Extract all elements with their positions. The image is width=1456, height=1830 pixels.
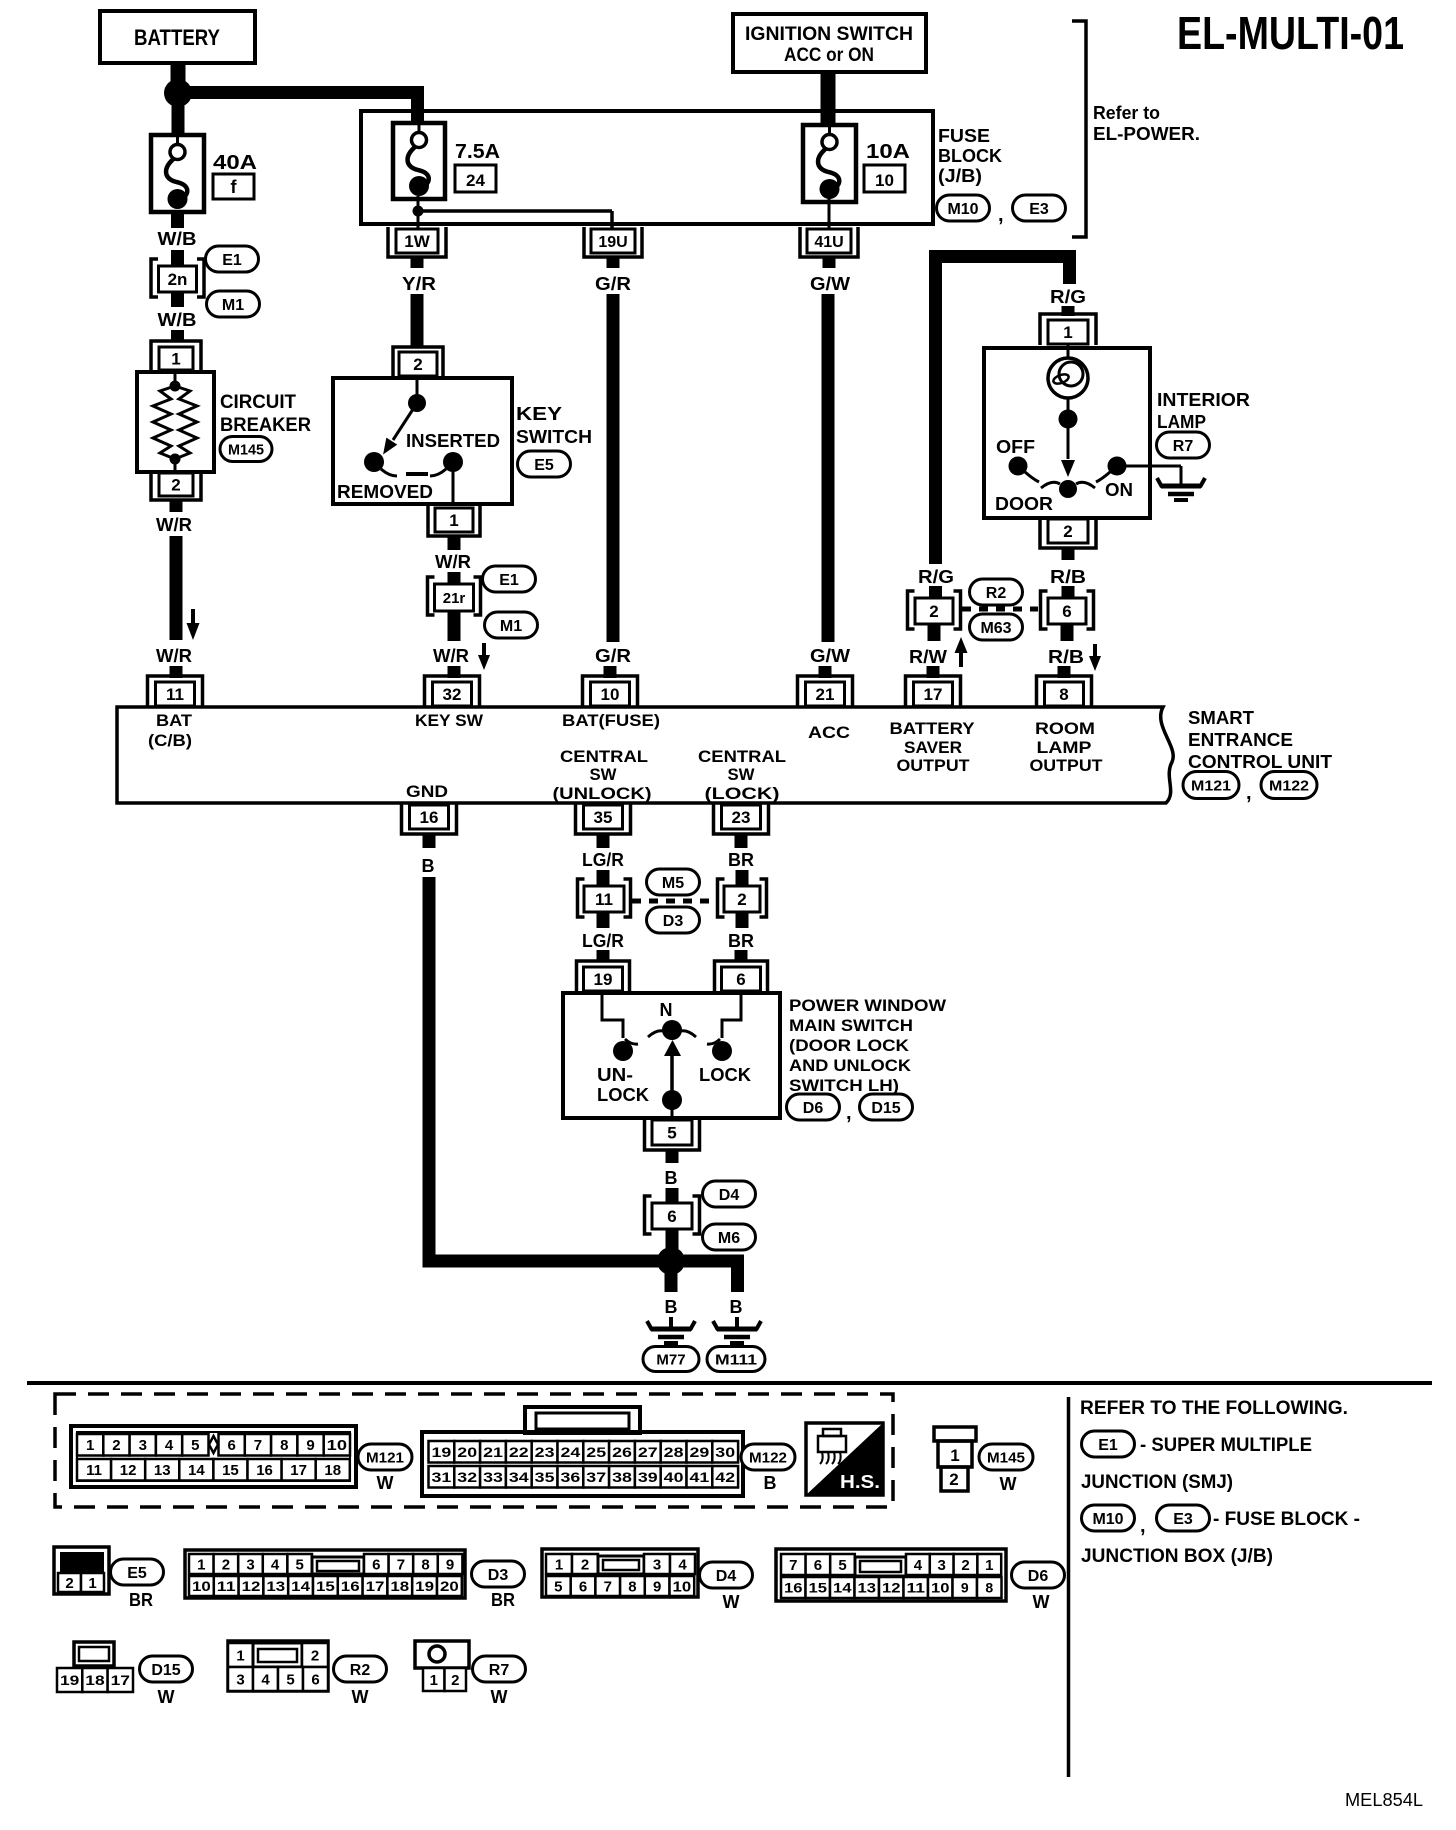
svg-text:(C/B): (C/B)	[148, 731, 192, 750]
note fuse block	[1213, 1509, 1360, 1530]
pin 19 power window main switch	[577, 961, 630, 992]
connector 6 (R2/M63)	[1041, 591, 1094, 629]
connector E1 oval (key switch)	[483, 566, 536, 592]
wire B connector 6 to ground junction	[666, 1228, 679, 1249]
svg-text:5: 5	[286, 1671, 294, 1688]
connector M1 oval (key switch)	[485, 612, 538, 638]
svg-text:W: W	[1000, 1474, 1017, 1494]
svg-text:R/B: R/B	[1048, 647, 1084, 667]
svg-text:8: 8	[421, 1556, 429, 1573]
connector M121 pinout	[71, 1426, 356, 1487]
svg-text:5: 5	[296, 1556, 304, 1573]
svg-text:38: 38	[612, 1469, 632, 1485]
note junction SMJ	[1081, 1472, 1233, 1493]
svg-text:W/B: W/B	[158, 310, 197, 330]
wire G/R 19U to control unit pin 10	[595, 257, 631, 678]
connector E1 oval (note)	[1082, 1431, 1135, 1457]
svg-text:3: 3	[139, 1437, 147, 1454]
connector D15 oval (pinout)	[140, 1656, 193, 1707]
svg-text:6: 6	[372, 1556, 380, 1573]
svg-text:8: 8	[985, 1580, 993, 1596]
wire inside fuse block 7.5A to 1W and 19U	[413, 196, 613, 232]
arrow up (battery saver)	[955, 637, 968, 667]
svg-text:SWITCH: SWITCH	[516, 427, 592, 447]
svg-text:19: 19	[415, 1578, 434, 1594]
pin 11 BAT (C/B)	[148, 676, 203, 707]
svg-text:2: 2	[737, 890, 746, 909]
svg-text:24: 24	[561, 1444, 581, 1460]
svg-text:M145: M145	[987, 1449, 1025, 1466]
wire ignition switch to fuse 10A	[821, 72, 836, 126]
svg-text:7: 7	[397, 1556, 405, 1573]
svg-text:LOCK: LOCK	[597, 1085, 649, 1105]
connector D4 oval	[703, 1181, 756, 1207]
connector M121 oval (pinout)	[358, 1444, 412, 1493]
svg-text:1: 1	[430, 1672, 438, 1689]
svg-text:W/R: W/R	[435, 552, 471, 572]
svg-text:9: 9	[306, 1437, 314, 1454]
wire W/B connector 2n to circuit breaker	[158, 291, 197, 342]
svg-text:12: 12	[120, 1462, 137, 1479]
svg-text:3: 3	[236, 1671, 244, 1688]
svg-text:5: 5	[667, 1124, 676, 1143]
connector E5 oval	[518, 451, 571, 477]
svg-text:INTERIOR: INTERIOR	[1157, 390, 1250, 410]
svg-text:G/R: G/R	[595, 274, 631, 294]
comma	[1140, 1515, 1146, 1537]
svg-text:9: 9	[653, 1578, 661, 1595]
wire G/W 41U to control unit pin 21	[810, 257, 850, 678]
control unit pin labels top	[148, 711, 1103, 775]
wire B junction down to left ground	[665, 1272, 678, 1328]
pin 23 CENTRAL SW LOCK	[714, 803, 769, 834]
svg-text:W/R: W/R	[156, 646, 192, 666]
svg-text:M77: M77	[656, 1351, 685, 1368]
svg-text:,: ,	[998, 204, 1004, 226]
svg-text:OUTPUT: OUTPUT	[1030, 756, 1104, 775]
svg-text:(LOCK): (LOCK)	[705, 784, 780, 803]
svg-text:17: 17	[111, 1672, 131, 1688]
svg-text:17: 17	[366, 1578, 385, 1594]
svg-text:REMOVED: REMOVED	[337, 482, 433, 502]
svg-text:R2: R2	[986, 585, 1007, 602]
svg-text:ACC or ON: ACC or ON	[784, 45, 874, 66]
connector D4 pinout	[542, 1549, 698, 1597]
pin 1 key switch	[428, 506, 480, 536]
H.S. mark	[806, 1423, 883, 1495]
svg-text:BAT(FUSE): BAT(FUSE)	[562, 711, 660, 730]
svg-text:R7: R7	[489, 1662, 510, 1679]
connector D15 oval	[860, 1094, 913, 1120]
svg-text:13: 13	[266, 1578, 285, 1594]
pin 2 key switch	[393, 347, 443, 377]
wire Y/R 1W to key switch	[402, 257, 436, 348]
svg-text:6: 6	[579, 1578, 587, 1595]
svg-text:BREAKER: BREAKER	[220, 415, 311, 436]
svg-text:ROOM: ROOM	[1035, 719, 1095, 738]
vertical divider	[1067, 1397, 1071, 1777]
svg-text:W: W	[377, 1473, 394, 1493]
connector M10 oval	[937, 195, 990, 221]
svg-text:17: 17	[924, 685, 943, 704]
wire inside fuse block 10A to 41U	[828, 196, 831, 232]
svg-text:M121: M121	[366, 1449, 404, 1466]
connector R7 pinout	[415, 1641, 469, 1691]
svg-text:2n: 2n	[168, 270, 188, 289]
svg-text:SAVER: SAVER	[904, 738, 962, 757]
svg-text:10: 10	[192, 1578, 211, 1594]
svg-text:8: 8	[628, 1578, 636, 1595]
svg-text:CONTROL UNIT: CONTROL UNIT	[1188, 752, 1332, 772]
svg-text:20: 20	[440, 1578, 459, 1594]
svg-text:5: 5	[554, 1578, 562, 1595]
svg-text:M1: M1	[222, 297, 244, 314]
svg-text:1: 1	[197, 1556, 205, 1573]
svg-text:19: 19	[432, 1444, 452, 1460]
ground M111	[707, 1321, 765, 1372]
connector E3 oval	[1013, 195, 1066, 221]
power window main switch label	[789, 996, 947, 1095]
svg-text:18: 18	[324, 1462, 341, 1479]
svg-text:R7: R7	[1173, 438, 1194, 455]
svg-text:7: 7	[254, 1437, 262, 1454]
svg-text:32: 32	[443, 685, 462, 704]
svg-text:D6: D6	[803, 1100, 824, 1117]
pin 1 interior lamp	[1040, 314, 1096, 345]
connector M121 oval	[1183, 772, 1239, 799]
svg-text:40A: 40A	[213, 152, 257, 174]
svg-text:8: 8	[280, 1437, 288, 1454]
svg-text:4: 4	[271, 1556, 280, 1573]
svg-text:B: B	[665, 1168, 678, 1188]
svg-text:27: 27	[638, 1444, 658, 1460]
svg-text:G/W: G/W	[810, 646, 850, 666]
fuse 7.5A 24	[393, 123, 500, 199]
svg-text:1: 1	[950, 1446, 959, 1465]
svg-text:POWER WINDOW: POWER WINDOW	[789, 996, 947, 1015]
svg-text:29: 29	[690, 1444, 710, 1460]
svg-text:SMART: SMART	[1188, 708, 1254, 728]
svg-text:IGNITION SWITCH: IGNITION SWITCH	[745, 24, 913, 45]
svg-text:EL-MULTI-01: EL-MULTI-01	[1177, 7, 1404, 59]
svg-text:D15: D15	[871, 1100, 900, 1117]
separator line	[27, 1381, 1432, 1385]
svg-text:24: 24	[466, 171, 485, 190]
svg-text:10: 10	[931, 1580, 950, 1596]
comma	[1246, 782, 1252, 804]
svg-text:R/B: R/B	[1050, 567, 1086, 587]
svg-text:- SUPER MULTIPLE: - SUPER MULTIPLE	[1140, 1435, 1312, 1456]
svg-text:W: W	[491, 1687, 508, 1707]
svg-text:7.5A: 7.5A	[455, 141, 500, 163]
wire B label right ground	[730, 1297, 743, 1328]
wire W/B fuse to connector 2n	[158, 212, 197, 267]
note junction box	[1081, 1546, 1273, 1567]
svg-text:21: 21	[816, 685, 835, 704]
svg-text:M122: M122	[1269, 777, 1309, 794]
svg-text:SWITCH LH): SWITCH LH)	[789, 1076, 899, 1095]
svg-text:16: 16	[420, 808, 439, 827]
connector M122 oval	[1261, 772, 1317, 799]
svg-text:D3: D3	[488, 1567, 509, 1584]
connector D6 pinout	[776, 1549, 1006, 1601]
svg-text:7: 7	[789, 1557, 797, 1574]
fuse 10A 10	[803, 125, 910, 202]
svg-text:26: 26	[612, 1444, 632, 1460]
svg-text:E3: E3	[1173, 1511, 1193, 1528]
svg-text:(J/B): (J/B)	[938, 166, 982, 186]
svg-text:B: B	[665, 1297, 678, 1317]
connector 19U fuse block output	[584, 227, 642, 257]
svg-text:2: 2	[311, 1647, 319, 1664]
svg-text:,: ,	[1140, 1515, 1146, 1537]
svg-text:R2: R2	[350, 1662, 371, 1679]
svg-text:4: 4	[165, 1437, 174, 1454]
svg-text:W: W	[352, 1687, 369, 1707]
connector D4 oval (pinout)	[700, 1562, 753, 1612]
connector E3 oval (note)	[1157, 1505, 1210, 1531]
svg-text:W/R: W/R	[156, 515, 192, 535]
svg-text:E5: E5	[127, 1565, 147, 1582]
svg-text:LOCK: LOCK	[699, 1065, 751, 1085]
svg-text:BR: BR	[728, 931, 754, 951]
connector M6 oval	[703, 1224, 756, 1250]
svg-text:ENTRANCE: ENTRANCE	[1188, 730, 1293, 750]
svg-text:9: 9	[961, 1580, 969, 1596]
svg-text:5: 5	[191, 1437, 199, 1454]
svg-text:SW: SW	[728, 765, 756, 784]
svg-text:31: 31	[432, 1469, 452, 1485]
svg-text:6: 6	[814, 1557, 822, 1574]
svg-text:D6: D6	[1028, 1568, 1049, 1585]
svg-text:15: 15	[316, 1578, 335, 1594]
svg-text:Y/R: Y/R	[402, 274, 436, 294]
svg-text:JUNCTION (SMJ): JUNCTION (SMJ)	[1081, 1472, 1233, 1493]
svg-text:2: 2	[413, 355, 422, 374]
battery	[100, 11, 255, 63]
pin 35 CENTRAL SW UNLOCK	[576, 803, 631, 834]
svg-text:M63: M63	[980, 620, 1011, 637]
svg-text:M10: M10	[1092, 1511, 1123, 1528]
svg-text:37: 37	[586, 1469, 606, 1485]
svg-text:23: 23	[535, 1444, 555, 1460]
svg-text:M145: M145	[228, 441, 264, 458]
wire R/G trunk from fuse block	[918, 250, 1070, 599]
interior lamp R7	[984, 345, 1181, 518]
svg-text:OFF: OFF	[996, 437, 1035, 457]
svg-text:11: 11	[217, 1578, 236, 1594]
svg-text:M6: M6	[718, 1230, 740, 1247]
svg-text:6: 6	[227, 1437, 235, 1454]
svg-text:7: 7	[604, 1578, 612, 1595]
fuse block label	[938, 126, 1002, 186]
svg-text:Refer to: Refer to	[1093, 103, 1160, 123]
pin 16 GND	[402, 803, 457, 834]
svg-text:M10: M10	[947, 201, 978, 218]
svg-text:2: 2	[451, 1672, 459, 1689]
svg-text:N: N	[660, 1000, 673, 1020]
svg-text:5: 5	[838, 1557, 846, 1574]
svg-text:CENTRAL: CENTRAL	[698, 747, 786, 766]
svg-text:B: B	[422, 856, 435, 876]
svg-text:E5: E5	[534, 457, 554, 474]
svg-text:23: 23	[732, 808, 751, 827]
svg-text:32: 32	[457, 1469, 477, 1485]
svg-text:BLOCK: BLOCK	[938, 146, 1002, 166]
svg-text:13: 13	[858, 1580, 877, 1596]
svg-text:14: 14	[188, 1462, 205, 1479]
svg-text:41U: 41U	[814, 234, 843, 251]
svg-text:13: 13	[154, 1462, 171, 1479]
connector M5 oval	[647, 869, 700, 895]
svg-text:1W: 1W	[404, 232, 430, 251]
svg-text:34: 34	[509, 1469, 529, 1485]
svg-text:3: 3	[246, 1556, 254, 1573]
svg-text:ACC: ACC	[808, 723, 850, 742]
smart entrance control unit label	[1188, 708, 1332, 772]
svg-text:42: 42	[715, 1469, 735, 1485]
svg-text:16: 16	[341, 1578, 360, 1594]
connector D3 oval	[647, 907, 700, 933]
svg-text:36: 36	[561, 1469, 581, 1485]
svg-text:REFER TO THE FOLLOWING.: REFER TO THE FOLLOWING.	[1080, 1398, 1348, 1419]
svg-text:3: 3	[938, 1557, 946, 1574]
svg-text:BR: BR	[491, 1590, 515, 1610]
svg-text:21r: 21r	[443, 590, 466, 607]
svg-text:35: 35	[594, 808, 613, 827]
svg-text:BR: BR	[129, 1590, 153, 1610]
connector E5 oval (pinout)	[111, 1559, 164, 1610]
wire R/B interior lamp to connector 6	[1050, 548, 1086, 599]
wire R/G to interior lamp pin 1	[1050, 287, 1086, 316]
svg-text:LG/R: LG/R	[582, 850, 624, 870]
connector 2n (E1/M1)	[151, 259, 204, 297]
svg-text:DOOR: DOOR	[995, 494, 1053, 514]
svg-text:6: 6	[736, 970, 745, 989]
svg-text:15: 15	[222, 1462, 239, 1479]
connector 11 (M5/D3)	[578, 879, 631, 917]
svg-text:ON: ON	[1105, 480, 1133, 500]
svg-text:CIRCUIT: CIRCUIT	[220, 392, 296, 413]
svg-text:2: 2	[1063, 522, 1072, 541]
svg-text:GND: GND	[406, 782, 448, 801]
svg-text:BATTERY: BATTERY	[134, 25, 220, 50]
bracket refer to EL-POWER	[1072, 21, 1200, 237]
svg-text:(UNLOCK): (UNLOCK)	[553, 784, 652, 803]
comma	[998, 204, 1004, 226]
comma	[846, 1102, 852, 1124]
svg-text:MEL854L: MEL854L	[1345, 1790, 1423, 1810]
svg-text:R/W: R/W	[909, 647, 947, 667]
note refer to the following	[1080, 1398, 1348, 1419]
svg-text:35: 35	[535, 1469, 555, 1485]
svg-text:1: 1	[86, 1437, 94, 1454]
wire BR connector 2 to pin 6	[728, 911, 754, 962]
arrow down (W/R feed)	[187, 609, 200, 640]
svg-text:H.S.: H.S.	[840, 1472, 880, 1492]
svg-text:BAT: BAT	[156, 711, 193, 730]
pin 8 ROOM LAMP OUTPUT	[1037, 676, 1092, 707]
pin 5 power window main switch	[645, 1118, 700, 1150]
svg-text:2: 2	[581, 1556, 589, 1573]
svg-text:D3: D3	[663, 913, 684, 930]
svg-text:16: 16	[256, 1462, 273, 1479]
drawing number MEL854L	[1345, 1790, 1423, 1810]
connector M145 oval	[220, 437, 272, 462]
svg-text:17: 17	[290, 1462, 307, 1479]
svg-text:f: f	[231, 177, 238, 197]
svg-text:M5: M5	[662, 875, 684, 892]
svg-text:21: 21	[483, 1444, 503, 1460]
svg-text:2: 2	[222, 1556, 230, 1573]
svg-text:2: 2	[112, 1437, 120, 1454]
svg-text:10: 10	[327, 1437, 347, 1454]
svg-text:SW: SW	[590, 765, 618, 784]
pin 6 power window main switch	[715, 961, 768, 992]
wire BR pin 23 to connector 2	[728, 834, 754, 887]
wire B GND pin 16 to junction	[422, 834, 672, 1261]
svg-text:W/B: W/B	[158, 229, 197, 249]
svg-text:1: 1	[449, 511, 458, 530]
svg-text:3: 3	[653, 1556, 661, 1573]
svg-text:11: 11	[86, 1462, 102, 1479]
connector R2 oval	[970, 579, 1023, 605]
svg-text:2: 2	[961, 1557, 969, 1574]
connector R7 oval	[1157, 432, 1210, 458]
pin 10 BAT(FUSE)	[583, 676, 638, 707]
dashed link R2/M63	[962, 607, 1038, 612]
svg-text:AND UNLOCK: AND UNLOCK	[789, 1056, 912, 1075]
svg-text:10: 10	[673, 1578, 692, 1595]
connector 41U fuse block output	[800, 227, 858, 257]
svg-text:30: 30	[715, 1444, 735, 1460]
pin 32 KEY SW	[425, 676, 480, 707]
svg-text:G/W: G/W	[810, 274, 850, 294]
svg-text:W: W	[158, 1687, 175, 1707]
svg-text:M122: M122	[749, 1449, 787, 1466]
wire LG/R connector 11 to pin 19	[582, 911, 624, 962]
wire LG/R pin 35 to connector 11	[582, 834, 624, 887]
svg-text:,: ,	[1246, 782, 1252, 804]
connector M10 oval (note)	[1082, 1505, 1135, 1531]
svg-text:MAIN SWITCH: MAIN SWITCH	[789, 1016, 913, 1035]
svg-text:2: 2	[65, 1575, 73, 1592]
svg-text:19U: 19U	[598, 234, 627, 251]
connector M145 oval (pinout)	[979, 1444, 1033, 1494]
svg-text:,: ,	[846, 1102, 852, 1124]
arrow down (W/R key switch)	[478, 643, 490, 670]
svg-text:CENTRAL: CENTRAL	[560, 747, 648, 766]
svg-text:4: 4	[678, 1556, 687, 1573]
svg-text:M121: M121	[1191, 777, 1231, 794]
svg-text:15: 15	[809, 1580, 828, 1596]
wire W/R circuit breaker to control unit pin 11	[156, 500, 192, 678]
svg-text:10: 10	[875, 171, 894, 190]
svg-text:W: W	[1033, 1592, 1050, 1612]
svg-text:4: 4	[261, 1671, 270, 1688]
svg-text:6: 6	[1062, 602, 1071, 621]
connector M122 oval (pinout)	[741, 1444, 795, 1493]
svg-text:B: B	[764, 1473, 777, 1493]
svg-text:19: 19	[594, 970, 613, 989]
svg-text:1: 1	[88, 1575, 96, 1592]
smart entrance control unit box	[117, 707, 1173, 803]
connector M145 pinout	[934, 1427, 976, 1491]
connector 1W fuse block output	[388, 227, 446, 257]
svg-text:6: 6	[311, 1671, 319, 1688]
svg-text:M1: M1	[500, 618, 522, 635]
svg-text:10A: 10A	[866, 141, 910, 163]
